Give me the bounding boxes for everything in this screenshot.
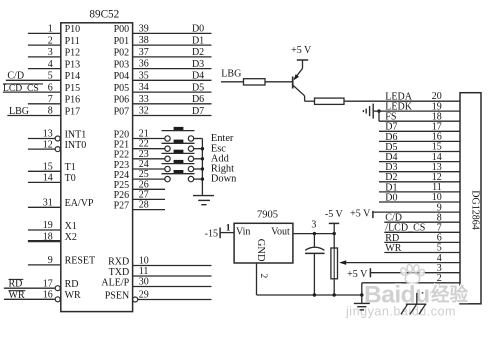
svg-text:+5 V: +5 V	[291, 45, 312, 56]
wire DG D7 pin 17	[379, 130, 460, 132]
junction dot LEDK	[377, 109, 380, 112]
svg-text:INT1: INT1	[65, 129, 87, 140]
svg-text:P11: P11	[65, 36, 80, 47]
svg-text:2: 2	[258, 274, 268, 279]
svg-text:LBG: LBG	[9, 106, 29, 117]
svg-text:EA/VP: EA/VP	[65, 198, 94, 209]
svg-text:DG12864: DG12864	[469, 190, 480, 229]
junction dot Vout-cap	[313, 232, 316, 235]
wire P04 to D4	[133, 79, 212, 81]
svg-text:1: 1	[48, 24, 53, 35]
wire pin 18 X2	[28, 240, 61, 242]
svg-text:+5 V: +5 V	[347, 269, 368, 280]
svg-text:P12: P12	[65, 48, 81, 59]
junction dot Vout minus5	[333, 232, 336, 235]
wire P24	[133, 178, 165, 180]
push button S4 Right	[162, 160, 203, 172]
svg-text:15: 15	[43, 162, 53, 173]
push button S2 Esc	[162, 140, 203, 152]
svg-text:14: 14	[43, 173, 53, 184]
svg-text:P03: P03	[114, 59, 130, 70]
svg-text:89C52: 89C52	[89, 9, 119, 21]
wire pin 19 X1	[28, 229, 61, 231]
svg-text:-15: -15	[205, 228, 218, 239]
wire pin 17 RD	[4, 287, 55, 289]
svg-text:Down: Down	[211, 174, 237, 185]
resistor R2	[315, 98, 345, 104]
net labels D0-D7 bus	[192, 24, 204, 117]
resistor R1	[244, 79, 266, 85]
transistor Q1 PNP	[293, 68, 305, 101]
wire DG pin 2 to ground	[361, 283, 363, 303]
wire P21	[133, 148, 165, 150]
bubble PSEN	[133, 297, 138, 302]
svg-text:3: 3	[48, 47, 53, 58]
power +5V at DG pin 9	[350, 209, 373, 220]
IC U3 DG12864 body	[460, 93, 481, 304]
overline RD DG	[385, 231, 399, 233]
wire pin 15 T1	[28, 170, 61, 172]
ground G2	[354, 303, 370, 310]
wire pin 5	[6, 79, 61, 81]
junction dot rail ground	[360, 293, 363, 296]
push button S3 Add	[162, 150, 203, 162]
wire DG WR pin 5	[384, 252, 460, 254]
wire pin 2	[28, 44, 61, 46]
svg-text:D0: D0	[192, 24, 204, 35]
wire Q1 collector to R2	[305, 100, 315, 102]
svg-text:D7: D7	[192, 106, 204, 117]
svg-text:3: 3	[311, 219, 316, 230]
wire pin 7	[28, 103, 61, 105]
power -15 input	[205, 228, 220, 240]
wire DG D4 pin 14	[379, 161, 460, 163]
wire P26	[133, 198, 165, 200]
svg-text:5: 5	[48, 71, 53, 82]
wire DG D0 pin 10	[379, 201, 460, 203]
pin labels U1 left column	[65, 24, 96, 301]
ground G1 buttons	[193, 196, 214, 205]
svg-text:7: 7	[48, 94, 53, 105]
wire LBG to R1	[221, 81, 244, 83]
svg-text:LCD_CS: LCD_CS	[3, 83, 39, 94]
wire pin 8	[7, 115, 60, 117]
svg-text:1: 1	[226, 223, 231, 233]
wire P23	[133, 168, 165, 170]
wire PSEN	[138, 299, 212, 301]
svg-text:P27: P27	[114, 200, 130, 211]
svg-text:X1: X1	[65, 221, 77, 232]
wire FS pin 18	[379, 120, 460, 122]
capacitor C1	[305, 234, 325, 295]
wire RXD	[133, 265, 212, 267]
wire DG pin 3	[370, 272, 460, 274]
junction dots button bus	[201, 147, 204, 181]
svg-text:P07: P07	[114, 106, 130, 117]
wire DG pin 1	[417, 292, 460, 294]
svg-text:17: 17	[43, 278, 53, 289]
svg-text:13: 13	[43, 129, 53, 140]
svg-text:LBG: LBG	[221, 68, 241, 79]
potentiometer RP1	[331, 248, 338, 279]
power +5V at Q1 emitter	[291, 45, 312, 68]
svg-text:P13: P13	[65, 59, 81, 70]
wire DG C/D pin 8	[384, 221, 460, 223]
wire Vout pin 3	[293, 233, 334, 235]
power +5V at DG pin 3	[347, 268, 370, 280]
svg-text:RD: RD	[65, 279, 79, 290]
IC U1 89C52 body	[61, 23, 133, 312]
overline WR DG	[385, 242, 401, 244]
svg-text:-5 V: -5 V	[325, 209, 344, 220]
svg-text:T1: T1	[65, 162, 76, 173]
svg-text:D4: D4	[192, 71, 204, 82]
bubble INT0	[55, 147, 60, 152]
wire P07 to D7	[133, 115, 212, 117]
pin numbers U3	[432, 91, 442, 294]
bubble WR	[55, 297, 60, 302]
wire TXD	[133, 275, 212, 277]
svg-text:4: 4	[48, 59, 53, 70]
svg-text:P04: P04	[114, 71, 130, 82]
wire pin 12 INT0	[28, 148, 55, 150]
bubble INT1	[55, 136, 60, 141]
chassis ground G3	[401, 293, 427, 315]
wire P06 to D6	[133, 103, 212, 105]
svg-text:D6: D6	[192, 94, 204, 105]
wire P03 to D3	[133, 68, 212, 70]
svg-text:P15: P15	[65, 83, 81, 94]
wire DG D3 pin 13	[379, 171, 460, 173]
svg-text:D5: D5	[192, 82, 204, 93]
wire DG pin 9	[373, 211, 460, 213]
svg-text:RD: RD	[9, 279, 23, 290]
junction dot rail cap	[313, 293, 316, 296]
pin labels U3	[385, 91, 425, 254]
wire DG pin 4 wiper	[341, 262, 460, 264]
svg-text:ALE/P: ALE/P	[101, 277, 129, 288]
svg-text:X2: X2	[65, 232, 77, 243]
pin numbers U1 left side	[43, 24, 53, 301]
wire DG /LCD_CS pin 7	[384, 231, 460, 233]
wire -15 to Vin pin 1	[220, 232, 234, 234]
push button S5 Down	[162, 170, 203, 182]
svg-text:INT0: INT0	[65, 140, 87, 151]
svg-text:P00: P00	[114, 24, 130, 35]
svg-text:19: 19	[43, 220, 53, 231]
wire pin 16 WR	[4, 298, 55, 300]
wire GND pin 2 drop	[256, 263, 258, 295]
wire LEDK to FS	[378, 111, 380, 121]
wire pin 4	[28, 68, 61, 70]
wire P01 to D1	[133, 44, 212, 46]
ground rail wire	[257, 294, 362, 296]
wire P02 to D2	[133, 56, 212, 58]
svg-text:Vin: Vin	[236, 226, 250, 237]
wire LEDK pin 19	[379, 110, 460, 112]
svg-text:P16: P16	[65, 95, 81, 106]
svg-text:16: 16	[43, 290, 53, 301]
svg-text:Vout: Vout	[271, 226, 290, 237]
wire R2 to LEDA pin 20	[344, 100, 460, 102]
svg-text:RESET: RESET	[65, 256, 96, 267]
svg-text:D0: D0	[385, 192, 397, 203]
wire pin 14 T0	[28, 181, 61, 183]
IC U2 7905 body	[234, 223, 293, 263]
wire button common bus	[201, 139, 203, 196]
svg-text:WR: WR	[9, 290, 25, 301]
svg-text:RXD: RXD	[108, 256, 129, 267]
svg-text:P01: P01	[114, 36, 130, 47]
wire pin 6	[3, 91, 61, 93]
svg-text:P06: P06	[114, 95, 130, 106]
wire pin 1	[28, 32, 61, 34]
wire P00 to D0	[133, 32, 212, 34]
wire DG D5 pin 15	[379, 151, 460, 153]
watermark Baidu paw logo	[400, 264, 425, 284]
wire pin 9 RESET	[28, 264, 61, 266]
wire DG pin 2	[362, 282, 460, 284]
wire P20	[133, 138, 165, 140]
junction dot rail pot	[333, 293, 336, 296]
svg-text:D3: D3	[192, 59, 204, 70]
wire pin 31 EA/VP	[28, 206, 61, 208]
svg-text:18: 18	[43, 231, 53, 242]
svg-text:PSEN: PSEN	[105, 290, 129, 301]
wire P22	[133, 158, 165, 160]
ground G4 at LEDK rotated	[363, 104, 379, 119]
bubble RD	[55, 286, 60, 291]
wire DG RD pin 6	[384, 241, 460, 243]
svg-text:P14: P14	[65, 71, 81, 82]
wire DG D2 pin 12	[379, 181, 460, 183]
svg-text:7905: 7905	[257, 209, 278, 220]
svg-text:+5 V: +5 V	[350, 209, 371, 220]
svg-text:31: 31	[43, 198, 53, 209]
svg-text:P10: P10	[65, 24, 81, 35]
svg-text:6: 6	[48, 82, 53, 93]
svg-text:GND: GND	[255, 239, 266, 262]
svg-text:2: 2	[48, 35, 53, 46]
wire P27	[133, 209, 165, 211]
svg-text:TXD: TXD	[109, 267, 130, 278]
wire P05 to D5	[133, 91, 212, 93]
wire pot line	[333, 234, 335, 295]
wire DG D6 pin 16	[379, 140, 460, 142]
svg-text:P17: P17	[65, 106, 81, 117]
svg-text:D1: D1	[192, 35, 204, 46]
svg-text:WR: WR	[65, 290, 81, 301]
power -5V	[325, 209, 344, 234]
svg-text:12: 12	[43, 139, 53, 150]
svg-text:8: 8	[48, 106, 53, 117]
svg-text:P02: P02	[114, 48, 130, 59]
svg-text:WR: WR	[385, 243, 401, 254]
wire P25	[133, 188, 165, 190]
pin labels U1 right column	[101, 24, 129, 301]
wire DG D1 pin 11	[379, 191, 460, 193]
pin numbers U1 right side	[139, 23, 149, 300]
svg-text:经验: 经验	[431, 284, 469, 305]
svg-text:C/D: C/D	[7, 71, 24, 82]
svg-text:P05: P05	[114, 83, 130, 94]
arrowhead wiper pin 4	[339, 260, 346, 265]
push button S1 Enter	[162, 127, 203, 141]
wire pin 3	[28, 56, 61, 58]
wire R1 to Q1 base	[265, 81, 293, 83]
wire pin 13 INT1	[28, 138, 55, 140]
wire ALE/P	[133, 286, 212, 288]
svg-text:T0: T0	[65, 173, 76, 184]
svg-text:9: 9	[48, 255, 53, 266]
svg-text:D2: D2	[192, 47, 204, 58]
